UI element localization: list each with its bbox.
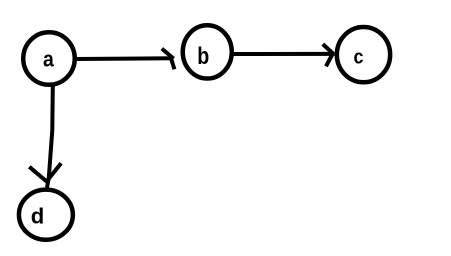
svg-text:d: d xyxy=(31,204,45,229)
node d xyxy=(19,190,73,240)
wire b to c xyxy=(232,52,335,56)
arrowhead a to d xyxy=(29,163,61,182)
wire a to b xyxy=(75,56,174,61)
node a xyxy=(23,32,75,85)
svg-text:a: a xyxy=(43,47,55,72)
node c xyxy=(337,27,390,82)
arrowhead a to b xyxy=(162,49,175,70)
arrowhead b to c xyxy=(323,44,334,66)
wire a to d xyxy=(47,85,53,188)
svg-text:c: c xyxy=(354,47,364,69)
node b xyxy=(183,25,232,78)
svg-text:b: b xyxy=(197,43,209,70)
